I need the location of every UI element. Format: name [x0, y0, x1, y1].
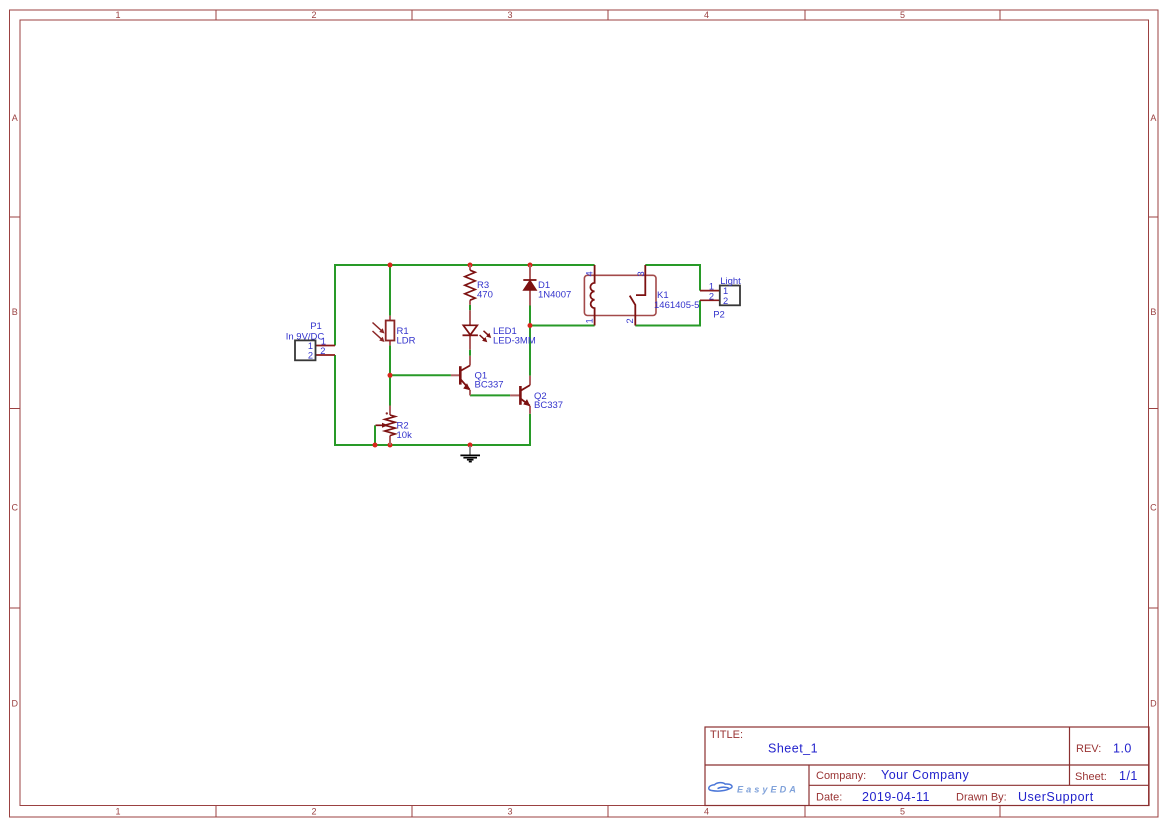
node: R2-gnd [388, 443, 393, 448]
svg-text:BC337: BC337 [475, 380, 504, 391]
svg-text:3: 3 [507, 10, 512, 20]
svg-text:LDR: LDR [397, 335, 416, 346]
svg-text:UserSupport: UserSupport [1018, 790, 1094, 804]
D1 triangle [523, 280, 536, 290]
P1 body [295, 340, 316, 360]
wire: LED1 bottom to Q1 collector [469, 350, 471, 356]
svg-text:LED-3MM: LED-3MM [493, 335, 536, 346]
svg-text:Light: Light [720, 276, 741, 287]
node: rail-R1 [388, 263, 393, 268]
svg-text:1/1: 1/1 [1119, 769, 1138, 783]
node: rail-D1 [528, 263, 533, 268]
EasyEDA logo [709, 783, 799, 795]
svg-text:5: 5 [900, 10, 905, 20]
wire: ground left/bottom rail [335, 355, 530, 445]
P1 pin 1 lead [316, 345, 336, 347]
svg-text:REV:: REV: [1076, 743, 1101, 755]
svg-text:B: B [1150, 307, 1156, 317]
R2 bottom pin [389, 436, 391, 445]
wire: D1 anode to coil pin1 and Q2 collector [530, 326, 595, 376]
svg-text:2019-04-11: 2019-04-11 [862, 790, 930, 804]
svg-text:3: 3 [507, 807, 512, 817]
D1 cathode bar [523, 279, 536, 281]
LED1 anode pin [469, 310, 471, 325]
svg-text:P2: P2 [713, 309, 725, 320]
svg-text:EasyEDA: EasyEDA [737, 784, 799, 794]
Q1 base pin [451, 374, 460, 376]
Q2 body [520, 385, 530, 405]
svg-text:10k: 10k [397, 430, 413, 441]
svg-text:TITLE:: TITLE: [710, 729, 743, 741]
svg-text:Date:: Date: [816, 792, 842, 804]
coil pin 4 + coil + pin 1 [590, 265, 594, 326]
svg-text:1.0: 1.0 [1113, 742, 1132, 756]
wire: relay pin2 to P2 pin2 [635, 300, 700, 325]
svg-text:1461405-5: 1461405-5 [654, 300, 699, 311]
R2 top pin [389, 406, 391, 416]
Q2 emitter arrowhead [523, 399, 530, 406]
R2 zigzag body [385, 415, 395, 436]
svg-text:D: D [1150, 699, 1157, 709]
LED1 [463, 310, 536, 349]
svg-text:1: 1 [585, 318, 595, 323]
R1 light arrows [373, 323, 385, 343]
svg-text:Sheet_1: Sheet_1 [768, 742, 818, 756]
connector P1 [286, 321, 335, 361]
svg-text:2: 2 [723, 296, 728, 306]
svg-text:C: C [1150, 503, 1157, 513]
P2 pin 2 lead [700, 299, 720, 301]
P2 pin 1 lead [700, 290, 720, 292]
R3 bottom pin [469, 300, 471, 305]
contact pin 3 [636, 265, 645, 295]
connector P2 [700, 276, 741, 321]
svg-text:1: 1 [723, 286, 728, 296]
svg-text:D: D [12, 699, 19, 709]
svg-text:470: 470 [477, 289, 493, 300]
svg-text:2: 2 [320, 346, 325, 356]
node: rail-R3 [468, 263, 473, 268]
R1 top pin [389, 316, 391, 321]
svg-text:Sheet:: Sheet: [1075, 771, 1107, 783]
transistor Q2 (BC337) [510, 376, 563, 414]
D1 anode pin [529, 290, 531, 305]
resistor R3 (470) [465, 265, 493, 305]
svg-text:2: 2 [311, 10, 316, 20]
wire: Q1 emitter to Q2 base [470, 394, 510, 396]
svg-text:5: 5 [900, 807, 905, 817]
ground bars [460, 455, 480, 461]
R2 terminal-1 dot [386, 412, 388, 414]
svg-text:B: B [12, 307, 18, 317]
svg-text:1: 1 [308, 341, 313, 351]
R1 bottom pin [389, 341, 391, 346]
title block [705, 727, 1149, 806]
wire: R1 top [389, 265, 391, 316]
K1 body outline [584, 275, 656, 315]
Q2 base pin [510, 394, 520, 396]
svg-text:C: C [12, 503, 19, 513]
svg-text:2: 2 [709, 291, 714, 301]
R2 wiper arrow [376, 423, 389, 428]
wire: R1 bottom to R2 top (base node) [389, 345, 391, 405]
svg-text:1: 1 [115, 807, 120, 817]
CIRCUIT [286, 263, 741, 462]
svg-text:1N4007: 1N4007 [538, 289, 571, 300]
svg-text:Company:: Company: [816, 770, 866, 782]
svg-text:2: 2 [311, 807, 316, 817]
svg-text:Your Company: Your Company [881, 768, 969, 782]
relay K1 [584, 265, 699, 326]
svg-text:4: 4 [704, 10, 709, 20]
wire: relay pin3 to P2 pin1 [645, 265, 700, 291]
node: gnd symbol [468, 443, 473, 448]
diode D1 (1N4007) [523, 265, 571, 306]
P1 pin 2 lead [316, 354, 336, 356]
ground [460, 446, 480, 462]
R3 top pin [469, 265, 471, 270]
ground stem [469, 446, 471, 455]
Q2 collector pin [529, 376, 531, 385]
Q1 collector pin [469, 356, 471, 366]
node: Q1 base node [388, 373, 393, 378]
transistor Q1 (BC337) [451, 356, 504, 396]
Q1 body [460, 366, 470, 390]
resistor R2 (pot 10k) [376, 406, 413, 446]
junction dots [373, 263, 533, 448]
svg-text:A: A [1150, 113, 1156, 123]
svg-text:Drawn By:: Drawn By: [956, 792, 1007, 804]
wire: R3 bottom to LED1 top [469, 305, 471, 310]
blade + pin 2 [630, 296, 636, 326]
node: D1 anode node [528, 323, 533, 328]
Q1 emitter pin [469, 390, 471, 396]
D1 cathode pin [529, 265, 531, 280]
svg-text:A: A [12, 113, 18, 123]
svg-text:4: 4 [585, 271, 595, 276]
svg-text:2: 2 [308, 350, 313, 360]
wire: Q1 base [390, 374, 451, 376]
svg-text:In 9V/DC: In 9V/DC [286, 331, 325, 342]
svg-text:4: 4 [704, 807, 709, 817]
LED1 triangle [463, 325, 477, 335]
svg-text:1: 1 [709, 282, 714, 292]
title block text [710, 729, 1138, 804]
svg-text:3: 3 [636, 271, 646, 276]
LED1 cathode bar [463, 334, 478, 336]
svg-text:P1: P1 [310, 321, 322, 332]
relay pin number labels [585, 271, 647, 323]
wire: R2 wiper to ground [374, 425, 376, 445]
Q2 emitter pin [529, 406, 531, 414]
R3 zigzag body [465, 270, 475, 300]
P2 body [720, 286, 740, 306]
LED1 cathode pin [469, 335, 471, 349]
wire: 9V top rail and left rail [335, 265, 595, 346]
node: wiper-gnd [373, 443, 378, 448]
Q1 emitter arrowhead [463, 383, 470, 390]
resistor R1 (LDR) [373, 316, 416, 347]
LED1 emission arrows [480, 331, 492, 342]
svg-text:1: 1 [115, 10, 120, 20]
svg-text:BC337: BC337 [534, 400, 563, 411]
svg-text:2: 2 [625, 318, 635, 323]
R1 body [386, 321, 395, 341]
